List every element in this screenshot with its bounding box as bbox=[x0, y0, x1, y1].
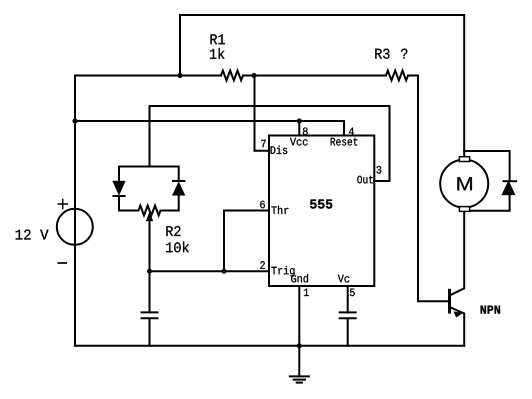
Q1 emitter arrow bbox=[454, 312, 463, 318]
pin number 2 bbox=[260, 261, 265, 269]
wire trig line bbox=[150, 270, 270, 272]
pin number 8 bbox=[303, 128, 308, 136]
junction dot left rail bbox=[73, 119, 78, 124]
label 12 V bbox=[16, 230, 49, 240]
wire left rail bbox=[74, 76, 76, 346]
pin label Trig bbox=[271, 266, 294, 277]
diode D3 flyback bbox=[502, 181, 516, 196]
V1 plus mark bbox=[58, 200, 67, 209]
label NPN bbox=[481, 306, 500, 314]
pin label Gnd bbox=[291, 274, 308, 282]
pin label Vcc bbox=[290, 138, 308, 146]
resistor R3 bbox=[386, 71, 408, 81]
pin number 3 bbox=[377, 166, 382, 174]
label R3 ? mark bbox=[401, 49, 408, 59]
IC U1 555 body bbox=[269, 136, 374, 287]
label 1k bbox=[210, 48, 225, 59]
pin label Out bbox=[357, 176, 373, 184]
junction dot R1 top bbox=[178, 73, 183, 78]
wire cap C1 top bbox=[149, 271, 151, 312]
pin number 7 bbox=[261, 140, 265, 147]
wire cap C2 bottom bbox=[347, 318, 349, 345]
diode D1 bbox=[113, 181, 126, 195]
junction dot wiper trig bbox=[147, 269, 152, 274]
ground bbox=[290, 376, 309, 382]
wire thr link bbox=[224, 211, 269, 272]
R2 wiper arrow bbox=[146, 213, 153, 222]
label 10k bbox=[166, 242, 189, 253]
motor M1 bbox=[440, 160, 488, 208]
junction dot R1 right bbox=[252, 73, 257, 78]
label M bbox=[457, 177, 472, 190]
pin label Reset bbox=[331, 138, 358, 146]
wire motor branch bottom bbox=[464, 195, 509, 211]
wire pin 8 stub bbox=[298, 121, 300, 136]
label R1 bbox=[211, 34, 225, 44]
capacitor C2 bbox=[340, 312, 356, 318]
label R3 ? bbox=[375, 49, 389, 59]
pin number 6 bbox=[260, 201, 265, 209]
diode D2 bbox=[172, 182, 185, 196]
wire R1 to pin 7 bbox=[255, 76, 270, 151]
junction dot thr trig bbox=[222, 269, 227, 274]
wire top rail bbox=[180, 15, 464, 157]
wire diode pair frame bbox=[119, 167, 179, 211]
voltage source V1 12V bbox=[57, 209, 93, 245]
wire cap C1 bottom bbox=[149, 318, 151, 345]
pin label Vc bbox=[338, 275, 350, 283]
wire R3 to base bbox=[408, 76, 448, 302]
label 555 bbox=[310, 200, 332, 209]
pin number 5 bbox=[350, 289, 355, 297]
wire R1 left bbox=[75, 75, 221, 77]
label R2 bbox=[166, 226, 180, 236]
pin label Thr bbox=[271, 206, 288, 214]
capacitor C1 bbox=[142, 312, 158, 318]
wire out to diodes bbox=[150, 106, 390, 181]
wire R1 to R3 bbox=[243, 75, 386, 77]
wire Vcc Reset rail bbox=[75, 121, 344, 136]
V1 minus mark bbox=[58, 262, 66, 264]
junction dot pin 8 bbox=[297, 119, 302, 124]
potentiometer R2 bbox=[119, 206, 179, 216]
wire R2 wiper bbox=[149, 215, 151, 271]
pin number 4 bbox=[349, 128, 354, 135]
pin label Dis bbox=[271, 146, 288, 154]
wire pin 5 cap C2 top bbox=[347, 286, 349, 312]
wire motor branch top bbox=[464, 151, 509, 180]
pin number 1 bbox=[304, 289, 309, 296]
wire pin 1 to ground bbox=[298, 286, 300, 376]
wire bottom rail bbox=[75, 345, 464, 347]
transistor Q1 NPN bbox=[450, 288, 465, 313]
wire emitter to rail bbox=[463, 314, 465, 346]
junction dot ground bbox=[297, 343, 302, 348]
resistor R1 bbox=[221, 71, 243, 81]
wire motor to collector bbox=[463, 212, 465, 289]
